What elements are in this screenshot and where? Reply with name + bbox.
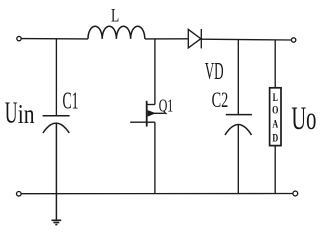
svg-text:A: A bbox=[272, 118, 278, 131]
wire top rail diode-to-terminal bbox=[201, 38, 291, 41]
wire Q1 source vertical bbox=[154, 122, 156, 194]
svg-text:L: L bbox=[273, 92, 279, 105]
svg-text:C1: C1 bbox=[63, 88, 79, 115]
wire LOAD branch bottom bbox=[274, 146, 276, 194]
svg-text:U: U bbox=[5, 97, 18, 130]
svg-text:VD: VD bbox=[205, 59, 224, 85]
load box bbox=[270, 88, 281, 146]
svg-text:Q1: Q1 bbox=[159, 96, 174, 116]
svg-text:D: D bbox=[272, 132, 278, 145]
svg-text:C2: C2 bbox=[212, 88, 229, 113]
diode VD bbox=[188, 29, 201, 48]
terminal top-left bbox=[17, 36, 21, 40]
svg-text:in: in bbox=[18, 100, 35, 130]
inductor L bbox=[88, 26, 145, 39]
svg-text:Uo: Uo bbox=[291, 100, 316, 136]
diode cathode bar bbox=[200, 29, 202, 49]
wire Q1 drain vertical bbox=[154, 39, 156, 105]
wire top rail inductor-to-diode bbox=[145, 38, 188, 40]
wire C2 branch top bbox=[237, 39, 239, 114]
capacitor C1 curved plate bbox=[43, 123, 69, 133]
terminal bottom-right bbox=[293, 191, 298, 196]
svg-text:L: L bbox=[111, 4, 119, 26]
transistor Q1 bbox=[130, 101, 165, 127]
capacitor C2 top plate bbox=[226, 114, 252, 116]
capacitor C1 top plate bbox=[43, 115, 70, 117]
svg-text:O: O bbox=[272, 104, 278, 117]
ground bbox=[52, 220, 62, 224]
wire C1 branch top bbox=[55, 39, 57, 115]
wire C2 bottom bbox=[237, 125, 239, 194]
wire bottom rail bbox=[21, 193, 293, 195]
wire C1 bottom to ground bbox=[55, 124, 57, 220]
wire top rail left segment bbox=[21, 38, 88, 40]
terminal bottom-left bbox=[17, 192, 22, 197]
wire LOAD branch top bbox=[274, 40, 276, 88]
capacitor C2 curved plate bbox=[225, 124, 252, 135]
terminal top-right bbox=[291, 38, 295, 42]
